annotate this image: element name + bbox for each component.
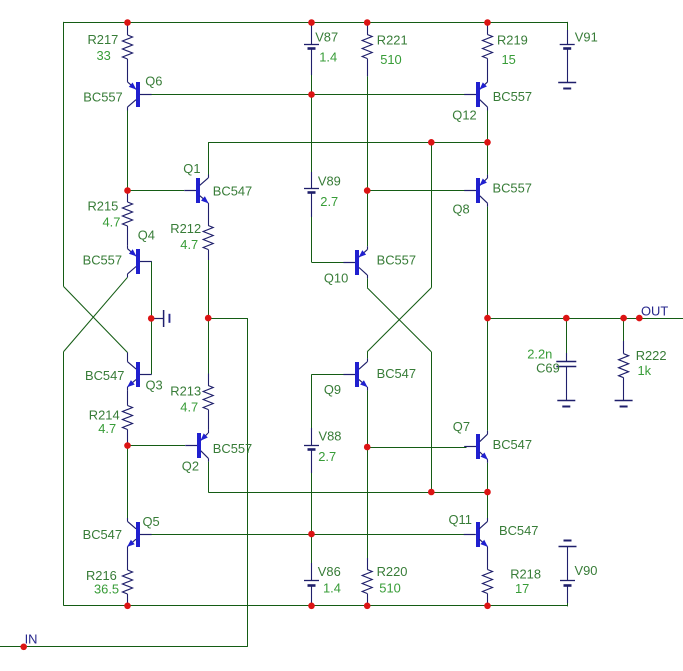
- svg-text:Q6: Q6: [145, 73, 162, 88]
- wire left cross diagonal B: [64, 277, 128, 351]
- svg-text:R212: R212: [170, 221, 201, 236]
- resistor R215: [88, 191, 133, 246]
- junction OUT rail C69: [563, 315, 570, 322]
- wire Q7 emitter down: [487, 463, 489, 492]
- ground R222 ground: [615, 401, 633, 407]
- svg-text:BC557: BC557: [493, 181, 532, 196]
- svg-text:4.7: 4.7: [180, 237, 198, 252]
- ground V90 ground: [559, 541, 577, 547]
- svg-text:17: 17: [515, 581, 529, 596]
- wire rail y492: [208, 492, 487, 494]
- svg-text:R221: R221: [377, 32, 408, 47]
- resistor R222: [619, 341, 667, 400]
- svg-text:V89: V89: [318, 174, 341, 189]
- junction node E (Q9/Q7 base/R220): [364, 444, 371, 451]
- junction node C (R212/R213/IN): [205, 315, 212, 322]
- wire node D to Q8 base: [367, 190, 466, 192]
- wire Q12 collector down: [487, 111, 489, 143]
- wire Q9 base: [312, 374, 346, 376]
- svg-text:BC557: BC557: [377, 253, 416, 268]
- svg-text:Q2: Q2: [182, 458, 199, 473]
- junction R220 bottom: [364, 603, 371, 610]
- svg-text:1k: 1k: [638, 363, 652, 378]
- wire Q10 collector drop: [367, 278, 369, 287]
- junction R219 top: [484, 19, 491, 26]
- transistor Q3: [85, 353, 163, 393]
- wire Q10 base: [312, 262, 346, 264]
- svg-text:BC547: BC547: [377, 366, 416, 381]
- wire V90 mid stem: [567, 546, 569, 581]
- wire C69 feed: [566, 318, 568, 353]
- junction rail492 Q7-Q11: [484, 489, 491, 496]
- wire node B down to Q5: [127, 446, 129, 518]
- resistor R221: [362, 23, 407, 77]
- wire node E to R220: [367, 447, 369, 558]
- junction V87 top: [308, 19, 315, 26]
- junction rail492 x431: [428, 489, 435, 496]
- wire left rail upper: [63, 22, 65, 287]
- voltage source V90: [560, 563, 597, 603]
- transistor Q12: [452, 79, 532, 123]
- svg-text:BC547: BC547: [499, 523, 538, 538]
- junction R217 top: [124, 19, 131, 26]
- svg-text:BC547: BC547: [493, 437, 532, 452]
- wire V87 to base rail: [311, 75, 313, 95]
- junction node D (R221/Q8 base/Q10): [364, 187, 371, 194]
- wire R221 to node D: [367, 76, 369, 190]
- svg-text:510: 510: [380, 52, 402, 67]
- wire node C to IN riser: [208, 318, 248, 320]
- svg-text:Q11: Q11: [449, 512, 472, 527]
- wire node D to Q10 emitter: [367, 191, 369, 247]
- svg-text:R222: R222: [636, 348, 667, 363]
- svg-text:Q9: Q9: [324, 382, 341, 397]
- wire middle cross diagonal A: [367, 288, 431, 352]
- wire V90 to bottom rail: [567, 603, 569, 606]
- svg-text:15: 15: [502, 52, 516, 67]
- svg-text:BC547: BC547: [83, 527, 122, 542]
- wire V91 feed: [567, 22, 569, 30]
- svg-text:4.7: 4.7: [180, 400, 198, 415]
- wire left cross diagonal A: [64, 287, 128, 353]
- junction rail142 x431: [428, 139, 435, 146]
- wire bottom rail: [64, 605, 568, 607]
- voltage source V89: [304, 172, 341, 217]
- svg-text:R217: R217: [88, 32, 119, 47]
- transistor Q8: [453, 175, 532, 217]
- junction rail142 Q8: [484, 139, 491, 146]
- wire node C to R213: [208, 318, 210, 373]
- svg-text:510: 510: [379, 581, 401, 596]
- terminal I: [151, 310, 170, 327]
- svg-text:R219: R219: [497, 32, 528, 47]
- wire Q8 emitter up: [487, 142, 489, 174]
- ground C69 ground: [557, 401, 575, 407]
- resistor R216: [86, 550, 133, 606]
- junction R218 bottom: [484, 603, 491, 610]
- wire Q9 emitter down: [367, 390, 369, 447]
- wire R212 to node C: [208, 260, 210, 318]
- ground V91 ground: [558, 83, 576, 89]
- svg-text:Q3: Q3: [146, 378, 163, 393]
- wire x431 upper: [431, 142, 433, 287]
- svg-text:1.4: 1.4: [323, 581, 341, 596]
- svg-text:Q8: Q8: [453, 202, 470, 217]
- wire node E to Q7 base: [367, 447, 466, 449]
- junction node B (R214/Q2 base): [124, 442, 131, 449]
- capacitor C69: [527, 346, 576, 400]
- wire Q9 base corner down: [311, 374, 313, 428]
- wire base rail to V89: [311, 95, 313, 173]
- wire Q4 base link: [144, 261, 151, 263]
- transistor Q5: [83, 514, 160, 550]
- junction IN terminal: [20, 644, 27, 651]
- svg-text:V87: V87: [315, 30, 338, 45]
- svg-text:V91: V91: [575, 30, 598, 45]
- junction R216 bottom: [124, 603, 131, 610]
- wire Q6 base rail to Q12: [140, 94, 477, 96]
- transistor Q1: [183, 161, 252, 207]
- transistor Q9: [324, 358, 416, 397]
- wire Q1 collector up: [208, 142, 210, 174]
- svg-text:V86: V86: [318, 564, 341, 579]
- junction R221 top: [364, 19, 371, 26]
- voltage source V88: [304, 428, 341, 473]
- svg-text:Q12: Q12: [452, 107, 476, 122]
- junction OUT terminal: [636, 315, 643, 322]
- junction V86 top on rail: [308, 531, 315, 538]
- svg-text:4.7: 4.7: [98, 421, 116, 436]
- wire OUT rail: [488, 318, 683, 320]
- svg-text:1.4: 1.4: [319, 49, 337, 64]
- wire left rail lower: [63, 352, 65, 606]
- svg-text:Q7: Q7: [453, 419, 470, 434]
- wire Q5 base rail to Q11: [140, 534, 476, 536]
- wire R222 feed: [623, 318, 625, 341]
- svg-text:BC557: BC557: [213, 441, 252, 456]
- svg-text:2.7: 2.7: [320, 194, 338, 209]
- wire Q8 collector to OUT: [487, 207, 489, 319]
- wire x431 lower: [431, 352, 433, 492]
- wire Q4-Q3 base link vertical: [151, 261, 153, 374]
- wire middle cross diagonal B: [367, 288, 431, 352]
- resistor R212: [170, 207, 213, 261]
- transistor Q10: [324, 246, 416, 285]
- transistor Q7: [453, 419, 532, 463]
- resistor R219: [483, 23, 528, 79]
- junction V87 on base rail: [308, 91, 315, 98]
- svg-text:R215: R215: [88, 199, 119, 214]
- svg-text:Q5: Q5: [143, 514, 160, 529]
- voltage source V87: [304, 23, 338, 76]
- svg-text:Q1: Q1: [183, 161, 200, 176]
- svg-text:R218: R218: [510, 567, 541, 582]
- svg-text:Q10: Q10: [324, 271, 348, 286]
- svg-text:OUT: OUT: [641, 304, 668, 319]
- svg-text:BC547: BC547: [85, 368, 124, 383]
- wire Q11 collector up: [487, 492, 489, 518]
- svg-text:36.5: 36.5: [94, 582, 119, 597]
- wire IN riser: [247, 318, 249, 647]
- transistor Q11: [449, 512, 539, 550]
- resistor R217: [88, 23, 133, 79]
- wire Q9 collector link: [367, 352, 369, 359]
- svg-text:R213: R213: [170, 384, 201, 399]
- wire top rail: [64, 22, 568, 24]
- junction node A (Q6/R215/Q1 base): [124, 187, 131, 194]
- junction OUT rail R222: [620, 315, 627, 322]
- wire V89 to Q10 base corner: [311, 217, 313, 262]
- svg-text:BC557: BC557: [493, 89, 532, 104]
- wire Q2 collector down: [208, 462, 210, 492]
- svg-text:BC547: BC547: [213, 183, 252, 198]
- svg-text:IN: IN: [25, 632, 38, 647]
- resistor R220: [362, 558, 407, 606]
- wire OUT to Q7 collector: [487, 318, 489, 431]
- voltage source V91: [560, 30, 598, 83]
- wire IN line: [0, 646, 248, 648]
- transistor Q4: [83, 228, 155, 278]
- junction node I tap: [148, 315, 155, 322]
- wire node B to Q2 base: [128, 445, 186, 447]
- svg-text:BC557: BC557: [83, 253, 122, 268]
- resistor R214: [89, 390, 133, 445]
- svg-text:BC557: BC557: [83, 89, 122, 104]
- svg-text:33: 33: [97, 48, 111, 63]
- resistor R218: [483, 550, 542, 606]
- svg-text:4.7: 4.7: [103, 215, 121, 230]
- svg-text:V88: V88: [319, 429, 342, 444]
- wire rail Q1-Q12 y142: [208, 142, 487, 144]
- svg-text:C69: C69: [536, 361, 560, 376]
- svg-text:Q4: Q4: [138, 228, 155, 243]
- wire node A to Q1 base: [128, 190, 185, 192]
- svg-text:R220: R220: [377, 564, 408, 579]
- voltage source V86: [304, 563, 341, 606]
- junction V86 bottom: [308, 603, 315, 610]
- wire V88 to Q5-Q11 rail: [311, 473, 313, 534]
- wire Q6 collector to node A: [127, 111, 129, 191]
- svg-text:V90: V90: [575, 563, 598, 578]
- svg-text:2.7: 2.7: [318, 449, 336, 464]
- svg-text:2.2n: 2.2n: [527, 346, 552, 361]
- transistor Q6: [83, 73, 162, 110]
- wire rail to V86: [311, 534, 313, 563]
- junction OUT rail Q8-Q7: [484, 315, 491, 322]
- wire Q3 base link: [144, 374, 151, 376]
- resistor R213: [170, 374, 213, 430]
- transistor Q2: [182, 430, 252, 474]
